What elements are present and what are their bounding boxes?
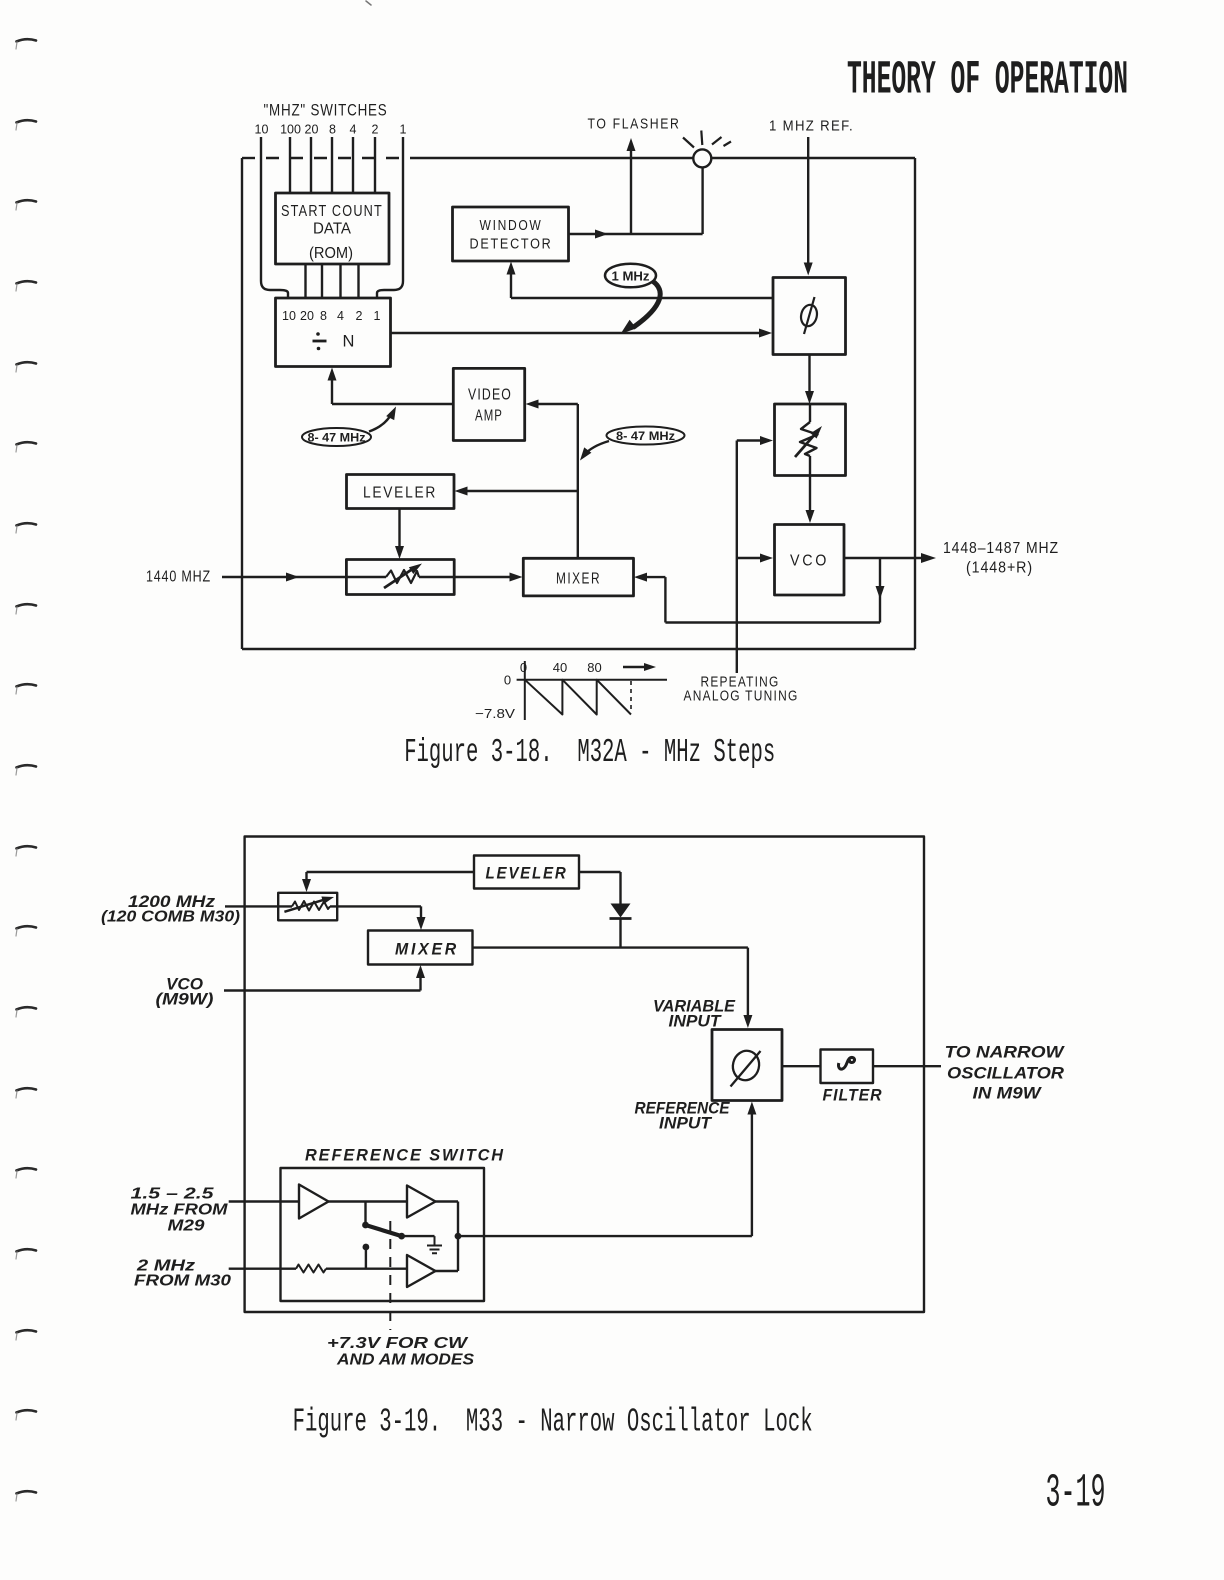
- svg-text:INPUT: INPUT: [659, 1115, 713, 1133]
- svg-text:8- 47 MHz: 8- 47 MHz: [616, 429, 675, 443]
- wire amp1 to amp2: [329, 1200, 408, 1202]
- wire attenuator to mixer: [454, 576, 518, 578]
- svg-text:(1448+R): (1448+R): [966, 560, 1033, 577]
- wire into video amp: [530, 403, 578, 405]
- svg-text:1: 1: [374, 309, 381, 323]
- svg-text:Figure 3-18. M32A - MHz Steps: Figure 3-18. M32A - MHz Steps: [404, 734, 775, 771]
- wire MHZ switch 8: [331, 137, 333, 193]
- wires ROM outputs to divider: [306, 264, 359, 298]
- wire leveler to detector diode: [579, 872, 621, 904]
- svg-text:40: 40: [553, 660, 567, 675]
- svg-text:1440 MHZ: 1440 MHZ: [146, 569, 211, 586]
- svg-text:MHz FROM: MHz FROM: [131, 1202, 229, 1219]
- svg-text:(ROM): (ROM): [309, 245, 353, 262]
- block MIXER (M33): [368, 931, 473, 965]
- block START COUNT DATA (ROM): [276, 193, 390, 264]
- svg-text:"MHZ" SWITCHES: "MHZ" SWITCHES: [264, 101, 388, 120]
- wire phase detector to filter: [782, 1065, 821, 1067]
- svg-text:4: 4: [350, 123, 357, 137]
- wire reference switch output: [458, 1235, 752, 1237]
- node switch pole: [362, 1222, 369, 1229]
- wire divider input from video amp: [332, 372, 453, 404]
- wire amp outputs join: [436, 1202, 459, 1272]
- svg-text:−7.8V: −7.8V: [475, 706, 515, 721]
- block WINDOW DETECTOR: [453, 207, 569, 261]
- svg-text:Figure 3-19. M33 - Narrow Osc: Figure 3-19. M33 - Narrow Oscillator Loc…: [293, 1404, 813, 1441]
- svg-text:IN M9W: IN M9W: [973, 1085, 1043, 1103]
- callout 1 MHz: [605, 264, 656, 288]
- svg-text:TO FLASHER: TO FLASHER: [588, 116, 681, 133]
- block divide-by-N counter: [276, 298, 391, 367]
- lamp indicator node: [701, 168, 703, 234]
- wire MHZ switch 100: [289, 137, 291, 193]
- svg-text:DATA: DATA: [313, 221, 351, 238]
- svg-text:8: 8: [329, 123, 336, 137]
- wire reference switch output to phase detector reference input: [751, 1107, 753, 1236]
- svg-text:0: 0: [504, 673, 511, 688]
- wire MHZ switch 4: [352, 137, 354, 193]
- svg-text:3-19: 3-19: [1046, 1468, 1106, 1521]
- wire mixer output to phase detector (variable input): [473, 948, 748, 1022]
- svg-text:TO NARROW: TO NARROW: [945, 1044, 1066, 1062]
- wire into leveler: [459, 490, 578, 492]
- reference switch box: [281, 1168, 485, 1301]
- node switch contact (2 MHz): [363, 1244, 370, 1251]
- svg-text:INPUT: INPUT: [669, 1013, 723, 1031]
- wire mixer output up to video amp / leveler: [577, 404, 579, 558]
- svg-text:REFERENCE SWITCH: REFERENCE SWITCH: [305, 1146, 505, 1165]
- block LEVELER (M33): [474, 856, 579, 889]
- svg-text:20: 20: [305, 123, 319, 137]
- wire divider output to phase detector: [391, 332, 761, 334]
- svg-text:80: 80: [587, 660, 601, 675]
- detector diode: [611, 904, 631, 918]
- filter block: [821, 1050, 874, 1084]
- svg-text:MIXER: MIXER: [556, 571, 601, 588]
- svg-text:8- 47 MHz: 8- 47 MHz: [308, 431, 366, 445]
- svg-text:ANALOG TUNING: ANALOG TUNING: [684, 689, 799, 705]
- svg-text:WINDOW: WINDOW: [480, 218, 543, 234]
- switch value labels 10 100 20 8 4 2 1: [255, 123, 407, 137]
- svg-text:2: 2: [356, 309, 363, 323]
- svg-text:100: 100: [280, 123, 301, 137]
- svg-text:1448–1487 MHZ: 1448–1487 MHZ: [943, 540, 1059, 557]
- wire 1200 MHz into attenuator: [225, 905, 278, 907]
- module boundary M33 (outer box): [245, 837, 924, 1313]
- wire arm to ground: [402, 1235, 435, 1237]
- wire VCO feedback to mixer: [638, 558, 880, 623]
- wire 2 MHz input: [229, 1267, 296, 1269]
- svg-text:(120 COMB M30): (120 COMB M30): [101, 909, 240, 926]
- block VCO: [775, 525, 845, 596]
- buffer amp (bottom output): [407, 1255, 436, 1287]
- svg-text:START COUNT: START COUNT: [281, 203, 383, 220]
- control line +7.3V (dashed): [389, 1221, 391, 1330]
- svg-text:VCO: VCO: [790, 553, 829, 570]
- svg-text:DETECTOR: DETECTOR: [470, 237, 553, 253]
- wire repeating analog tuning: [737, 441, 769, 674]
- svg-text:1.5 – 2.5: 1.5 – 2.5: [131, 1186, 215, 1203]
- variable attenuator (VCO tuning): [775, 404, 846, 476]
- svg-text:VIDEO: VIDEO: [468, 387, 512, 404]
- svg-text:0: 0: [520, 660, 527, 675]
- wire MHZ switch 2: [374, 137, 376, 193]
- svg-text:OSCILLATOR: OSCILLATOR: [947, 1065, 1064, 1083]
- wire 1 MHz into window detector: [511, 266, 773, 298]
- svg-text:1: 1: [400, 123, 407, 137]
- svg-text:10: 10: [255, 123, 269, 137]
- wire filter output to narrow oscillator: [873, 1065, 941, 1067]
- svg-text:AMP: AMP: [475, 408, 503, 425]
- module boundary M32A (outer box, dashed control-bus segment): [242, 157, 410, 159]
- svg-text:LEVELER: LEVELER: [486, 864, 568, 883]
- wire MHZ switch 20: [310, 137, 312, 193]
- resistor (2 MHz line): [296, 1265, 326, 1273]
- svg-text:10: 10: [282, 309, 296, 323]
- svg-text:4: 4: [337, 309, 344, 323]
- wire leveler to input attenuator: [307, 872, 475, 887]
- wire MHZ switch 10: [261, 137, 288, 298]
- wire attenuator to mixer: [337, 906, 421, 925]
- svg-text:M29: M29: [168, 1218, 205, 1235]
- wire MHZ switch 1: [377, 137, 403, 298]
- wire 1 MHz reference into phase detector: [807, 137, 809, 270]
- svg-text:2: 2: [372, 123, 379, 137]
- block LEVELER: [347, 475, 455, 509]
- callout 8-47 MHz (right): [607, 427, 685, 445]
- node output junction: [455, 1233, 462, 1240]
- block MIXER: [523, 558, 633, 596]
- svg-text:MIXER: MIXER: [395, 940, 459, 959]
- variable attenuator (1200 MHz input): [278, 893, 337, 921]
- svg-text:1 MHZ REF.: 1 MHZ REF.: [769, 118, 854, 135]
- sawtooth waveform (repeating analog tuning): [517, 661, 667, 720]
- wire window detector output to flasher lamp: [569, 233, 703, 235]
- svg-text:FILTER: FILTER: [823, 1087, 883, 1105]
- callout 8-47 MHz (left): [302, 428, 371, 446]
- svg-text:20: 20: [300, 309, 314, 323]
- wire leveler to 1440 attenuator: [398, 509, 400, 554]
- wire 1.5-2.5 MHz input: [229, 1200, 299, 1202]
- buffer amp (1.5-2.5 MHz input): [299, 1185, 329, 1219]
- block VIDEO AMP: [453, 368, 524, 440]
- phase detector (M32A): [773, 278, 846, 355]
- svg-text:(M9W): (M9W): [156, 990, 214, 1009]
- wire to flasher (arrow up): [630, 144, 632, 234]
- wire VCO output 1448-1487 MHZ: [844, 557, 921, 559]
- svg-text:FROM M30: FROM M30: [134, 1273, 231, 1290]
- svg-text:AND AM MODES: AND AM MODES: [336, 1352, 474, 1369]
- wire VCO input to mixer: [224, 970, 421, 991]
- phase detector (M33): [712, 1030, 782, 1101]
- svg-text:THEORY OF OPERATION: THEORY OF OPERATION: [847, 55, 1128, 108]
- svg-text:N: N: [343, 333, 355, 351]
- svg-text:8: 8: [320, 309, 327, 323]
- svg-text:+7.3V FOR CW: +7.3V FOR CW: [327, 1335, 469, 1352]
- svg-text:1 MHz: 1 MHz: [612, 270, 650, 284]
- switch pole drop: [364, 1202, 366, 1225]
- svg-text:LEVELER: LEVELER: [363, 485, 437, 502]
- variable attenuator (1440 MHz line): [346, 560, 454, 595]
- ground: [427, 1236, 442, 1253]
- switch arm: [366, 1225, 402, 1236]
- buffer amp (top output): [407, 1186, 436, 1218]
- node switch arm end: [398, 1233, 405, 1240]
